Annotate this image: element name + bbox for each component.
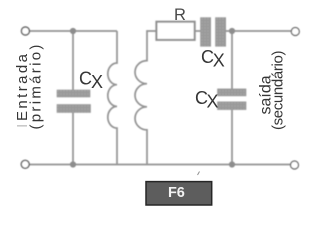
wire resistor to capacitor [195,30,201,32]
wire top-right rail [226,30,292,32]
wire left capacitor drop [72,31,74,90]
wire top-left rail [29,30,117,32]
capacitor C2 left shunt plate top [57,90,90,97]
node junction bottom-left [70,161,76,167]
capacitor C2 left shunt plate bottom [57,105,91,113]
svg-text:R: R [174,6,186,24]
svg-text:X: X [213,51,225,71]
wire left capacitor to bottom rail [72,113,74,165]
inductor L1 primary winding [108,31,117,165]
capacitor C3 right shunt plate top [218,89,247,96]
wire right capacitor drop [231,31,233,89]
terminal bottom-right [291,161,299,169]
terminal top-right [291,28,299,36]
svg-text:X: X [91,72,103,92]
scan artifact dash below Entrada [17,125,27,127]
svg-text:F6: F6 [168,185,185,201]
terminal bottom-left [21,160,29,168]
node junction top-right [229,28,235,34]
svg-text:(secundário): (secundário) [269,50,286,130]
capacitor C1 series plate right [216,18,226,47]
label box F6 [146,182,212,205]
node junction top-left [70,28,76,34]
capacitor C3 right shunt plate bottom [218,102,247,110]
capacitor C1 series plate left [201,18,211,47]
wire right capacitor to bottom rail [231,110,233,165]
resistor R [156,22,194,40]
svg-text:X: X [207,92,219,112]
terminal top-left [21,27,29,35]
inductor L2 secondary winding [135,31,156,165]
svg-text:(primário): (primário) [28,42,45,129]
node junction bottom-right [229,161,235,167]
wire bottom rail [29,164,291,166]
scan artifact tick above F6 [198,172,200,176]
